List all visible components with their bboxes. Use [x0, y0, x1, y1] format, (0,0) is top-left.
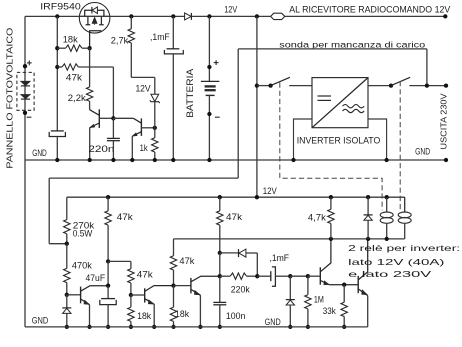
- svg-text:18k: 18k: [175, 309, 189, 319]
- wire Q4 emitter to bottom bus: [199, 295, 201, 327]
- wire sonda right drop to AC output: [426, 49, 428, 86]
- resistor 270k 0.5W: [66, 197, 68, 219]
- label ,1mF: [150, 32, 170, 42]
- wire Q6 emitter to bottom bus corner: [367, 296, 369, 327]
- transistor Q3b base lead: [131, 294, 145, 296]
- inverter U1 box INVERTER ISOLATO: [312, 78, 368, 128]
- wire sonda sense top: [238, 48, 427, 50]
- terminal GND right: [444, 158, 448, 162]
- Q3 collector lead: [81, 286, 109, 292]
- node Q3b base: [129, 293, 133, 297]
- wire x108.1 column to Q3 collector node: [107, 261, 109, 285]
- capacitor filter (divider column) top plate: [51, 130, 64, 132]
- inverter AC symbol double tilde: [343, 105, 365, 108]
- wire top GND bus: [25, 159, 446, 161]
- label 12V zener: [135, 84, 151, 94]
- resistor 220k horizontal: [220, 275, 230, 277]
- wire sense return horizontal: [49, 177, 238, 179]
- Q3b emitter lead with arrow: [145, 299, 155, 305]
- wire Q5 emitter to Q6 base: [329, 284, 358, 286]
- node 47k#2 jog junction: [106, 259, 110, 263]
- terminal 12V out right: [443, 14, 447, 18]
- node panel -: [23, 111, 27, 115]
- MOSFET channel legs: [86, 16, 91, 24]
- label 47k lower-left: [117, 212, 133, 222]
- relay dashed link left switch to coil: [280, 83, 382, 211]
- label GND bottom-left: [32, 316, 49, 326]
- label e lato 230V: [348, 269, 432, 279]
- wire cap to base node: [275, 275, 290, 277]
- wire bottom GND bus: [25, 326, 368, 328]
- Q1b base lead: [99, 117, 113, 119]
- svg-text:33k: 33k: [323, 306, 336, 316]
- label 12V lower bus: [263, 186, 278, 196]
- label INVERTER ISOLATO: [297, 136, 381, 147]
- node 47uF top: [106, 284, 110, 288]
- label 18k#2: [175, 309, 189, 319]
- svg-text:PANNELLO FOTOVOLTAICO: PANNELLO FOTOVOLTAICO: [5, 28, 14, 169]
- wire inverter AC return: [368, 119, 387, 160]
- capacitor 47uF bottom U plate: [100, 300, 116, 305]
- Q4 emitter lead with arrow: [191, 289, 201, 295]
- svg-text:47uF: 47uF: [86, 273, 106, 283]
- transistor Q5 base lead: [308, 275, 320, 277]
- wire 220n to GND bus: [112, 141, 114, 160]
- node GND bus x293.5: [291, 158, 295, 162]
- wire through MOSFET: [79, 15, 109, 17]
- label IRF9540: [40, 2, 81, 12]
- diode flyback D5: [367, 197, 369, 215]
- node ,1mF top: [171, 14, 175, 18]
- label 33k: [323, 306, 336, 316]
- svg-text:220n: 220n: [88, 144, 114, 154]
- resistor 1M: [307, 276, 309, 295]
- svg-text:4,7k: 4,7k: [308, 213, 326, 223]
- svg-text:INVERTER ISOLATO: INVERTER ISOLATO: [297, 136, 381, 147]
- node 18k right / gate: [87, 46, 91, 50]
- svg-text:12V: 12V: [263, 186, 278, 196]
- MOSFET body diode symbol: [91, 7, 93, 14]
- switch AC side (relay contact): [389, 83, 393, 87]
- label lato 12V 40A: [348, 257, 445, 267]
- node top rail / divider column: [55, 14, 59, 18]
- node clamp diode top: [288, 274, 292, 278]
- node bottom bus x290.3: [288, 325, 292, 329]
- node collector rail x368.1: [366, 237, 370, 241]
- svg-text:IRF9540: IRF9540: [40, 2, 81, 12]
- svg-text:2,7k: 2,7k: [111, 36, 129, 46]
- svg-text:GND: GND: [32, 148, 47, 158]
- Q4 base bar: [190, 278, 192, 294]
- svg-text:47k: 47k: [226, 212, 242, 222]
- panel cell diode 1: [21, 81, 30, 85]
- wire top 12V rail left segment: [25, 15, 271, 17]
- label 18k#1: [137, 311, 151, 321]
- resistor 1k: [154, 128, 156, 138]
- diode charge (top rail) triangle: [185, 13, 192, 20]
- svg-text:BATTERIA: BATTERIA: [185, 69, 195, 118]
- transistor Q4 base lead: [174, 285, 191, 287]
- node GND bus x173.3: [171, 158, 175, 162]
- transistor Q1 IRF9540 P-MOSFET circle: [79, 2, 110, 33]
- label 220n: [88, 144, 114, 154]
- wire divider column upper: [56, 16, 58, 130]
- wire 47uF to bottom bus: [107, 305, 109, 327]
- node battery +: [207, 65, 211, 69]
- node bottom bus x66.8: [65, 325, 69, 329]
- label BATTERIA vertical: [185, 69, 195, 118]
- svg-text:USCITA 230V: USCITA 230V: [438, 93, 448, 149]
- panel cell diode 2: [21, 95, 30, 99]
- wire ,1mF to GND bus: [172, 54, 174, 160]
- node GND bus x113.4: [111, 158, 115, 162]
- capacitor ,1mF top plate: [172, 16, 174, 48]
- label GND right: [415, 147, 430, 157]
- solar panel dashed box: [17, 72, 34, 110]
- node battery -: [207, 112, 211, 116]
- node lower bus x386.7: [385, 195, 389, 199]
- wire jog to 47k#2: [108, 260, 131, 262]
- svg-text:2 relè per inverter:: 2 relè per inverter:: [348, 243, 460, 253]
- node 220k right / cap left: [255, 274, 259, 278]
- svg-text:47k: 47k: [179, 256, 194, 266]
- node bottom bus x219.8: [218, 325, 222, 329]
- wire battery column top: [208, 16, 210, 81]
- label 47k#4: [226, 212, 242, 222]
- label 270k: [73, 221, 95, 231]
- diode charge cathode bar: [190, 13, 192, 20]
- terminal 230V out: [444, 83, 448, 87]
- capacitor ,1mF#2 horizontal left plate: [257, 275, 271, 277]
- node 47k left: [55, 65, 59, 69]
- wire x219.8 column to 100n: [219, 276, 221, 302]
- wire DC switch feed: [257, 85, 271, 87]
- label 1k: [140, 143, 148, 153]
- svg-text:47k: 47k: [66, 72, 82, 82]
- node 18k left: [55, 46, 59, 50]
- capacitor ,1mF#2 right bracket plate: [272, 267, 276, 286]
- battery + sign: [214, 62, 219, 64]
- Q2 base lead: [142, 127, 155, 129]
- transistor Q1b NPN (left small) collector lead: [90, 110, 100, 116]
- transistor Q3 base lead: [67, 294, 81, 296]
- svg-text:GND: GND: [32, 316, 49, 326]
- label 47k#3: [179, 256, 194, 266]
- label 100n: [226, 311, 246, 321]
- node bottom bus x89.5: [87, 325, 91, 329]
- svg-text:AL RICEVITORE RADIOCOMANDO 12V: AL RICEVITORE RADIOCOMANDO 12V: [289, 4, 450, 14]
- svg-text:47k: 47k: [117, 212, 133, 222]
- label 220k: [231, 285, 250, 295]
- node bottom bus x154.2: [152, 325, 156, 329]
- label 1M: [314, 295, 324, 305]
- panel + sign: [27, 62, 32, 64]
- wire 12V feed vertical to lower section: [256, 16, 258, 197]
- wire Q1b base junction to Q2 collector: [113, 117, 133, 119]
- svg-text:220k: 220k: [231, 285, 250, 295]
- svg-text:470k: 470k: [72, 261, 92, 271]
- resistor 47k#3: [173, 239, 175, 256]
- wire collector rail y238.9: [174, 238, 405, 240]
- wire gate column to 2,2k: [89, 48, 91, 87]
- svg-text:100n: 100n: [226, 311, 246, 321]
- Q6 collector lead: [358, 239, 368, 280]
- node 33k top: [342, 283, 346, 287]
- svg-text:1k: 1k: [140, 143, 148, 153]
- capacitor 47uF top plate: [107, 286, 109, 299]
- Q3 emitter lead with arrow: [81, 299, 90, 305]
- resistor 470k: [66, 244, 68, 269]
- node 12V feed / DC switch tap: [255, 83, 259, 87]
- svg-text:,1mF: ,1mF: [150, 32, 170, 42]
- label 47uF: [86, 273, 106, 283]
- capacitor 220n plates: [107, 137, 120, 139]
- node diode bypass left: [218, 251, 222, 255]
- node GND bus x57: [55, 158, 59, 162]
- node lower bus x256.9: [255, 195, 259, 199]
- label 2,2k: [68, 93, 86, 103]
- diode bypass over 220k: [220, 252, 239, 254]
- MOSFET gate bar and gate lead: [90, 31, 102, 48]
- svg-text:GND: GND: [265, 317, 281, 327]
- wire top 12V rail right segment (after fuse): [285, 15, 446, 17]
- node Q4 base junction: [171, 283, 175, 287]
- svg-text:47k: 47k: [137, 269, 153, 279]
- diode zener 12V: [151, 94, 159, 101]
- node lower bus x108.1: [106, 195, 110, 199]
- wire bypass down to 220k right: [256, 253, 258, 276]
- MOSFET body diode loop: [85, 10, 104, 16]
- transistor Q2 NPN collector lead: [133, 118, 141, 123]
- node GND bus x154.8: [153, 158, 157, 162]
- diode clamp D4: [289, 276, 291, 299]
- Q2 base bar: [140, 118, 142, 135]
- wire inverter DC minus return: [294, 119, 313, 160]
- wire x219.8 column mid: [219, 253, 221, 276]
- relay coil K1 (12V side): [386, 197, 388, 212]
- svg-text:GND: GND: [415, 147, 430, 157]
- wire 47k to Q1 base column: [112, 67, 114, 118]
- wire base junction down to 220n: [112, 118, 114, 138]
- node panel +: [23, 64, 27, 68]
- wire 2,7k jog to zener column: [131, 76, 155, 78]
- node bottom bus x108.1: [106, 325, 110, 329]
- resistor 18k#1: [130, 295, 132, 307]
- node 12V feed drop: [255, 14, 259, 18]
- resistor 47k#2: [130, 261, 132, 268]
- battery BATTERIA cells: [201, 80, 220, 82]
- node collector rail x386.7: [385, 237, 389, 241]
- node bottom bus x200.4: [198, 325, 202, 329]
- inverter DC symbol =: [318, 95, 332, 97]
- label AL RICEVITORE RADIOCOMANDO 12V: [289, 4, 450, 14]
- svg-text:12V: 12V: [224, 4, 238, 14]
- node lower bus x330.9: [329, 195, 333, 199]
- wire Q3 emitter to bottom bus: [89, 305, 91, 327]
- node Q1b base junction: [111, 116, 115, 120]
- diode clamp D3 (Q3 base): [66, 295, 68, 308]
- Q3b base bar: [144, 288, 146, 302]
- wire sense return to divider: [49, 243, 67, 245]
- node bottom bus x130.9: [129, 325, 133, 329]
- resistor 18k#2: [173, 286, 175, 308]
- resistor 4,7k: [330, 197, 332, 209]
- battery - sign: [215, 116, 220, 118]
- wire left GND drop (panel column): [24, 16, 26, 327]
- wire sense return left drop: [48, 178, 50, 244]
- Q1b base bar: [98, 109, 100, 128]
- node bottom bus x344.2: [342, 325, 346, 329]
- Q6 emitter lead with arrow: [358, 289, 368, 296]
- label GND left: [32, 148, 47, 158]
- label 4,7k: [308, 213, 326, 223]
- Q1b emitter lead with arrow: [90, 123, 100, 128]
- node bottom bus x307.9: [306, 325, 310, 329]
- wire 100n to bottom bus: [219, 305, 221, 327]
- svg-text:1M: 1M: [314, 295, 324, 305]
- wire sonda left drop: [237, 49, 239, 178]
- Q5 emitter lead with arrow: [320, 280, 329, 284]
- wire base node to 1M node: [290, 275, 308, 277]
- relay coil K2 (230V side): [404, 197, 406, 212]
- svg-text:,1mF: ,1mF: [269, 253, 289, 263]
- Q3b collector lead: [145, 286, 174, 292]
- resistor 33k: [343, 285, 345, 303]
- node lower bus x219.8: [218, 195, 222, 199]
- transistor Q6 base bar: [357, 276, 359, 293]
- label USCITA 230V vertical: [438, 93, 448, 149]
- svg-text:lato 12V (40A): lato 12V (40A): [348, 257, 445, 267]
- svg-text:sonda per mancanza di carico: sonda per mancanza di carico: [279, 39, 425, 49]
- node 2,7k top: [129, 14, 133, 18]
- switch DC side (relay contact): [268, 83, 272, 87]
- capacitor ,1mF bottom U plate: [164, 50, 183, 54]
- wire Q2 emitter to GND: [131, 136, 133, 160]
- MOSFET substrate arrow (P-channel, pointing up): [92, 18, 97, 24]
- Q3 base bar: [80, 287, 82, 304]
- wire inverter AC out: [368, 85, 391, 87]
- label 0.5W: [73, 228, 93, 238]
- node GND bus x386.6: [384, 158, 388, 162]
- node 270k/470k junction: [65, 242, 69, 246]
- node bottom bus x173.5: [171, 325, 175, 329]
- label ,1mF#2: [269, 253, 289, 263]
- label 2 rele per inverter: [348, 243, 460, 253]
- wire Q3b emitter to bottom bus: [153, 304, 155, 327]
- Q5 base bar: [319, 267, 321, 284]
- Q4 collector lead: [191, 276, 220, 282]
- capacitor filter bottom U plate: [49, 132, 65, 137]
- label 2,7k: [111, 36, 129, 46]
- node GND bus x209.4: [207, 158, 211, 162]
- wire cap to GND bus: [56, 137, 58, 161]
- svg-text:18k: 18k: [63, 34, 78, 44]
- svg-text:12V: 12V: [135, 84, 151, 94]
- svg-text:2,2k: 2,2k: [68, 93, 86, 103]
- fuse to receiver: [271, 13, 285, 19]
- Q5 collector lead: [320, 239, 331, 272]
- node collector rail x330.9: [329, 237, 333, 241]
- node GND bus x132.3: [130, 158, 134, 162]
- label GND bottom-middle: [265, 317, 281, 327]
- Q2 emitter lead with arrow: [132, 132, 141, 137]
- wire battery column bottom: [208, 95, 210, 160]
- svg-text:0.5W: 0.5W: [73, 228, 93, 238]
- wire lower 12V bus: [67, 196, 405, 198]
- resistor 2,2k: [86, 87, 92, 101]
- svg-text:18k: 18k: [137, 311, 151, 321]
- capacitor 100n plates: [213, 301, 226, 303]
- resistor 47k#4 (x219.8): [219, 197, 221, 211]
- label 47k#2: [137, 269, 153, 279]
- node lower bus x368.1: [366, 195, 370, 199]
- node 1M top: [306, 274, 310, 278]
- svg-text:e lato 230V: e lato 230V: [348, 269, 432, 279]
- label 470k: [72, 261, 92, 271]
- label PANNELLO FOTOVOLTAICO vertical: [5, 28, 14, 169]
- resistor 2,7k: [130, 16, 132, 28]
- label 47k top-left: [66, 72, 82, 82]
- resistor 18k (gate divider top): [57, 47, 65, 49]
- resistor 47k lower-left column: [107, 197, 109, 211]
- label sonda per mancanza di carico: [279, 39, 425, 49]
- node GND bus x89.7: [88, 158, 92, 162]
- wire Q1b emitter to GND: [89, 128, 91, 160]
- panel - sign: [27, 116, 32, 118]
- node Q2 base / zener junction: [153, 126, 157, 130]
- relay dashed link right switch to coil: [399, 81, 401, 210]
- node Q3 base junction: [65, 293, 69, 297]
- label 18k: [63, 34, 78, 44]
- node AC out / sonda junction: [425, 83, 429, 87]
- node battery top: [207, 14, 211, 18]
- label 12V mid top rail: [224, 4, 238, 14]
- node 220k left / Q4 collector: [218, 274, 222, 278]
- resistor 47k (gate divider bottom): [57, 66, 62, 68]
